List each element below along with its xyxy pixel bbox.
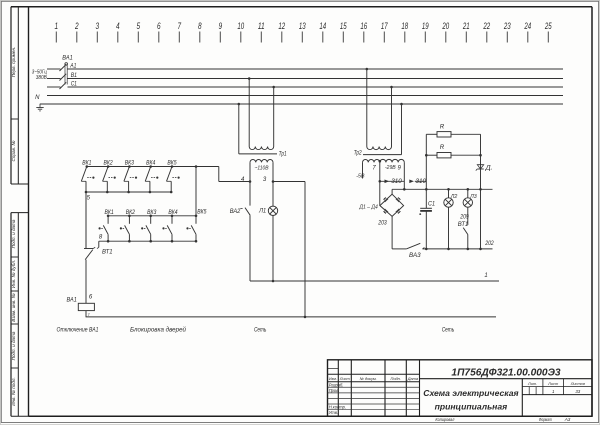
svg-text:310: 310 bbox=[416, 178, 427, 185]
svg-text:R: R bbox=[440, 123, 445, 130]
svg-text:11: 11 bbox=[258, 21, 265, 31]
svg-text:Подп. и дата: Подп. и дата bbox=[11, 219, 16, 248]
svg-text:С1: С1 bbox=[71, 81, 77, 88]
svg-text:ВА1: ВА1 bbox=[62, 55, 73, 62]
svg-text:24: 24 bbox=[524, 21, 531, 31]
svg-text:17: 17 bbox=[381, 21, 388, 31]
svg-text:Н.контр.: Н.контр. bbox=[329, 405, 346, 410]
svg-text:ВК2: ВК2 bbox=[126, 209, 136, 216]
svg-text:Лит.: Лит. bbox=[527, 381, 537, 386]
svg-text:ВК5: ВК5 bbox=[197, 208, 207, 215]
svg-text:Д1 – Д4: Д1 – Д4 bbox=[359, 204, 378, 210]
svg-text:Справ. №: Справ. № bbox=[11, 141, 16, 162]
svg-text:Дата: Дата bbox=[407, 376, 419, 381]
svg-text:Пров.: Пров. bbox=[329, 388, 340, 393]
svg-text:Подп. и дата: Подп. и дата bbox=[11, 331, 16, 360]
svg-text:1: 1 bbox=[484, 273, 487, 279]
svg-text:4: 4 bbox=[116, 21, 120, 31]
svg-text:8: 8 bbox=[198, 21, 202, 31]
svg-text:33: 33 bbox=[575, 389, 580, 394]
svg-text:9: 9 bbox=[219, 21, 223, 31]
svg-text:ВА3: ВА3 bbox=[409, 252, 421, 259]
svg-text:19: 19 bbox=[422, 21, 429, 31]
svg-text:-5В: -5В bbox=[356, 173, 364, 179]
svg-text:ВК3: ВК3 bbox=[147, 209, 157, 216]
svg-text:Тр1: Тр1 bbox=[279, 152, 287, 158]
svg-text:ВК4: ВК4 bbox=[146, 160, 156, 167]
svg-text:Копировал: Копировал bbox=[435, 417, 454, 422]
svg-text:ВТ1: ВТ1 bbox=[102, 249, 113, 256]
svg-text:15: 15 bbox=[340, 21, 347, 31]
svg-text:Инв. № дубл.: Инв. № дубл. bbox=[11, 260, 16, 288]
svg-text:22: 22 bbox=[483, 21, 490, 31]
svg-text:Л3: Л3 bbox=[469, 194, 477, 200]
svg-text:380В: 380В bbox=[36, 75, 47, 81]
svg-text:ВК5: ВК5 bbox=[167, 160, 177, 167]
svg-text:А3: А3 bbox=[564, 417, 571, 422]
svg-text:ВА1: ВА1 bbox=[67, 297, 77, 304]
svg-text:-29В: -29В bbox=[385, 165, 396, 171]
svg-text:N: N bbox=[35, 95, 40, 101]
svg-text:20: 20 bbox=[442, 21, 449, 31]
svg-text:Листов: Листов bbox=[570, 381, 585, 386]
svg-text:25: 25 bbox=[544, 21, 552, 31]
svg-text:ВК1: ВК1 bbox=[82, 160, 91, 167]
svg-text:6: 6 bbox=[157, 21, 161, 31]
svg-text:Отключение ВА1: Отключение ВА1 bbox=[57, 326, 99, 333]
svg-text:1П756ДФ321.00.000Э3: 1П756ДФ321.00.000Э3 bbox=[451, 368, 560, 379]
svg-text:Л1: Л1 bbox=[258, 209, 266, 215]
svg-text:16: 16 bbox=[360, 21, 367, 31]
svg-text:1: 1 bbox=[55, 21, 59, 31]
svg-text:Подп.: Подп. bbox=[391, 376, 401, 381]
svg-text:принципиальная: принципиальная bbox=[435, 402, 508, 412]
svg-text:3: 3 bbox=[96, 21, 100, 31]
svg-text:12: 12 bbox=[278, 21, 285, 31]
svg-text:Лист: Лист bbox=[339, 376, 351, 381]
svg-text:14: 14 bbox=[319, 21, 326, 31]
svg-text:Сеть: Сеть bbox=[442, 326, 455, 333]
svg-text:А1: А1 bbox=[69, 63, 76, 70]
svg-text:В1: В1 bbox=[71, 72, 77, 79]
svg-text:ВК2: ВК2 bbox=[104, 160, 114, 167]
svg-text:310: 310 bbox=[391, 178, 402, 185]
svg-text:ВК3: ВК3 bbox=[125, 160, 135, 167]
svg-text:Утв.: Утв. bbox=[329, 410, 338, 415]
svg-text:203: 203 bbox=[377, 221, 387, 227]
svg-text:202: 202 bbox=[484, 241, 494, 247]
svg-text:Схема электрическая: Схема электрическая bbox=[423, 388, 518, 398]
svg-text:21: 21 bbox=[462, 21, 469, 31]
svg-text:ВА2: ВА2 bbox=[230, 208, 241, 215]
svg-text:Взам. инв. №: Взам. инв. № bbox=[11, 293, 16, 321]
svg-text:Д.: Д. bbox=[484, 164, 492, 171]
svg-text:Сеть: Сеть bbox=[254, 326, 267, 333]
svg-text:10: 10 bbox=[237, 21, 244, 31]
svg-text:13: 13 bbox=[299, 21, 306, 31]
svg-text:Инв. № подл.: Инв. № подл. bbox=[11, 377, 16, 406]
svg-text:23: 23 bbox=[503, 21, 510, 31]
svg-text:ВК1: ВК1 bbox=[105, 209, 114, 216]
svg-text:18: 18 bbox=[401, 21, 408, 31]
svg-text:№ докум.: № докум. bbox=[360, 376, 377, 381]
svg-text:209: 209 bbox=[459, 215, 469, 221]
svg-text:ВК4: ВК4 bbox=[168, 209, 178, 216]
svg-text:Изм.: Изм. bbox=[329, 376, 337, 381]
svg-text:ВТ1: ВТ1 bbox=[458, 222, 469, 228]
svg-text:Разраб.: Разраб. bbox=[329, 383, 344, 388]
svg-text:~110В: ~110В bbox=[255, 166, 269, 172]
svg-text:2: 2 bbox=[74, 21, 78, 31]
svg-text:Лист: Лист bbox=[547, 381, 559, 386]
svg-text:Л2: Л2 bbox=[450, 194, 458, 200]
svg-text:Тр2: Тр2 bbox=[354, 150, 363, 156]
svg-text:Блокировка дверей: Блокировка дверей bbox=[130, 325, 186, 333]
svg-text:С1: С1 bbox=[428, 201, 435, 208]
svg-text:Перв. примен.: Перв. примен. bbox=[11, 47, 16, 78]
svg-text:R: R bbox=[440, 144, 445, 151]
svg-text:Формат: Формат bbox=[539, 417, 552, 422]
